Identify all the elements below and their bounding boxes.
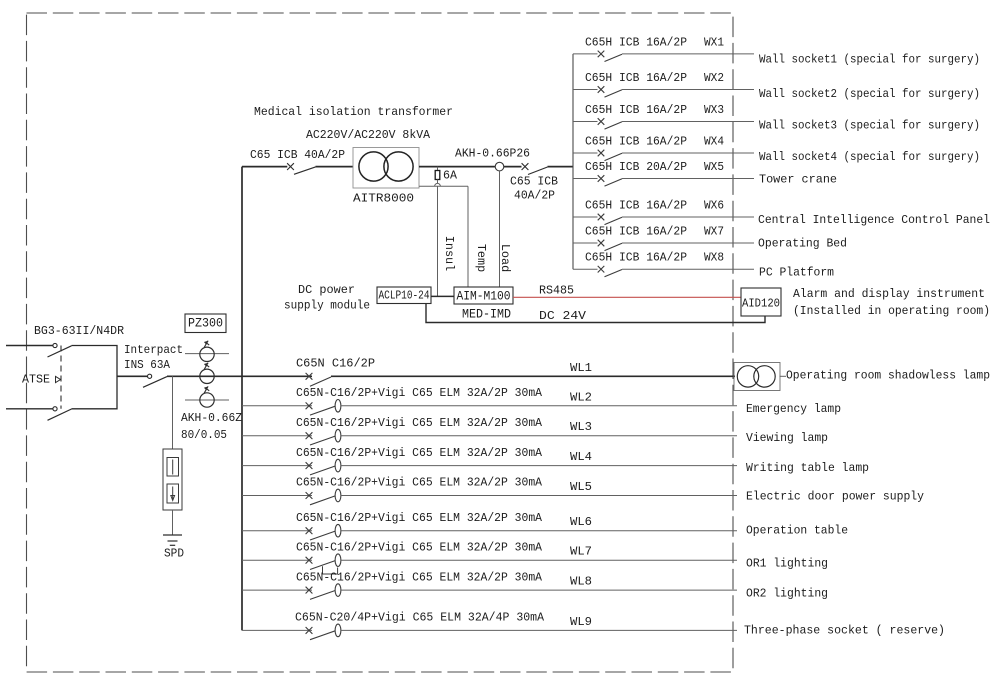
svg-text:C65H ICB 16A/2P: C65H ICB 16A/2P <box>585 71 687 85</box>
svg-text:C65H ICB 16A/2P: C65H ICB 16A/2P <box>585 103 687 117</box>
svg-text:supply module: supply module <box>284 299 370 313</box>
wire breaker to transformer <box>316 166 354 168</box>
label BG3-63II/N4DR <box>34 324 124 338</box>
svg-text:WL9: WL9 <box>570 615 592 629</box>
svg-text:Load: Load <box>498 244 512 272</box>
label Operating Bed <box>758 237 847 251</box>
svg-text:MED-IMD: MED-IMD <box>462 308 511 322</box>
svg-text:WL5: WL5 <box>570 480 592 494</box>
label Wall socket1 (special for surgery) <box>759 53 980 67</box>
svg-text:Interpact: Interpact <box>124 343 183 357</box>
CT3 circle <box>200 393 214 407</box>
svg-text:Central Intelligence Control P: Central Intelligence Control Panel <box>758 213 990 227</box>
dashed enclosure border <box>27 13 734 672</box>
svg-text:WX1: WX1 <box>704 35 724 49</box>
label supply module <box>284 299 370 313</box>
label Installed in operating room <box>793 304 990 318</box>
label Three-phase socket ( reserve) <box>744 623 945 637</box>
svg-text:OR1 lighting: OR1 lighting <box>746 557 828 571</box>
svg-text:C65N-C16/2P+Vigi C65 ELM 32A/2: C65N-C16/2P+Vigi C65 ELM 32A/2P 30mA <box>296 570 543 584</box>
wire transformer to sensor <box>419 166 495 168</box>
svg-text:C65N C16/2P: C65N C16/2P <box>296 357 375 371</box>
SPD inner element 2 <box>167 484 179 503</box>
switch blade input 2 <box>48 409 72 420</box>
wire INS to bus <box>167 375 242 377</box>
CT2 arrow <box>204 363 209 370</box>
label AC220V/AC220V 8kVA <box>306 128 431 142</box>
wire SPD branch vertical <box>172 376 174 449</box>
branch WX1 breaker and wire <box>573 35 754 61</box>
branch WL8 breaker and wire <box>242 570 737 599</box>
svg-text:C65H ICB 16A/2P: C65H ICB 16A/2P <box>585 35 687 49</box>
svg-text:WX7: WX7 <box>704 225 724 239</box>
svg-text:AITR8000: AITR8000 <box>353 192 414 206</box>
svg-text:Insul: Insul <box>442 236 456 271</box>
switch contact circle input 1 <box>53 343 57 347</box>
main bus vertical <box>241 167 243 631</box>
ACLP10-24 box <box>377 287 431 304</box>
label DC power <box>298 283 355 297</box>
svg-text:PC Platform: PC Platform <box>759 266 834 280</box>
label INS 63A <box>124 358 171 372</box>
svg-text:C65H ICB 16A/2P: C65H ICB 16A/2P <box>585 225 687 239</box>
switch contact circle INS <box>148 374 152 378</box>
svg-text:Tower crane: Tower crane <box>759 173 837 187</box>
svg-text:Wall socket3 (special for surg: Wall socket3 (special for surgery) <box>759 119 980 133</box>
svg-text:Operating Bed: Operating Bed <box>758 237 847 251</box>
svg-text:Three-phase socket ( reserve): Three-phase socket ( reserve) <box>744 623 945 637</box>
svg-text:WL2: WL2 <box>570 390 592 404</box>
label RS485 <box>539 283 574 297</box>
svg-text:Operating room shadowless lamp: Operating room shadowless lamp <box>786 368 990 382</box>
label AKH-0.66P26 <box>455 147 530 161</box>
breaker C65 ICB 40A/2P left blade <box>294 167 316 174</box>
fuse 6A body <box>435 171 440 180</box>
svg-text:Wall socket4 (special for surg: Wall socket4 (special for surgery) <box>759 150 980 164</box>
branch WX3 breaker and wire <box>573 103 754 129</box>
svg-text:Operation table: Operation table <box>746 524 848 538</box>
svg-text:WX6: WX6 <box>704 199 724 213</box>
label AID120 <box>742 297 780 311</box>
breaker C65 ICB 40A/2P left X <box>287 163 294 170</box>
PZ300 meter box <box>185 314 226 333</box>
wire Load sense <box>499 171 501 287</box>
svg-text:C65 ICB: C65 ICB <box>510 175 558 189</box>
label Temp vertical <box>474 244 488 272</box>
wire bus to breaker <box>242 166 287 168</box>
label Writing table lamp <box>746 461 869 475</box>
svg-text:WX3: WX3 <box>704 103 724 117</box>
svg-text:WX4: WX4 <box>704 135 724 149</box>
WL7 auxiliary box <box>323 566 338 574</box>
label C65 ICB right line1 <box>510 175 558 189</box>
CT1 circle <box>200 347 214 361</box>
transformer U1 winding 2 <box>384 152 413 181</box>
svg-text:AC220V/AC220V 8kVA: AC220V/AC220V 8kVA <box>306 128 431 142</box>
label Central Intelligence Control Panel <box>758 213 990 227</box>
wire Temp tap <box>419 186 468 287</box>
label AKH-0.66Z <box>181 411 242 425</box>
branch WL9 breaker and wire <box>242 611 737 640</box>
label Tower crane <box>759 173 837 187</box>
svg-text:WX2: WX2 <box>704 71 724 85</box>
svg-text:SPD: SPD <box>164 547 184 561</box>
switch contact circle input 2 <box>53 407 57 411</box>
svg-text:BG3-63II/N4DR: BG3-63II/N4DR <box>34 324 124 338</box>
transformer U1 box <box>353 148 419 189</box>
wire sensor to breaker <box>504 166 522 168</box>
label Wall socket4 (special for surgery) <box>759 150 980 164</box>
svg-text:C65N-C16/2P+Vigi C65 ELM 32A/2: C65N-C16/2P+Vigi C65 ELM 32A/2P 30mA <box>296 511 543 525</box>
label Electric door power supply <box>746 490 924 504</box>
svg-text:(Installed in operating room): (Installed in operating room) <box>793 304 990 318</box>
ATSE actuator triangle <box>56 376 61 382</box>
label PZ300 <box>188 317 223 331</box>
wire lamp to label <box>780 375 787 377</box>
CT2 circle <box>200 369 214 383</box>
wire Insul upper <box>437 180 439 184</box>
label OR1 lighting <box>746 557 828 571</box>
svg-text:40A/2P: 40A/2P <box>514 189 555 203</box>
SPD element arrow <box>171 487 175 501</box>
label C65 ICB 40A/2P <box>250 148 345 162</box>
wire ATSE output <box>117 375 147 377</box>
svg-text:C65N-C16/2P+Vigi C65 ELM 32A/2: C65N-C16/2P+Vigi C65 ELM 32A/2P 30mA <box>296 386 543 400</box>
svg-text:Wall socket1 (special for surg: Wall socket1 (special for surgery) <box>759 53 980 67</box>
CT3 primary line <box>185 399 229 401</box>
svg-text:C65H ICB 16A/2P: C65H ICB 16A/2P <box>585 199 687 213</box>
svg-text:AKH-0.66P26: AKH-0.66P26 <box>455 147 530 161</box>
branch WX2 breaker and wire <box>573 71 754 97</box>
svg-text:WL1: WL1 <box>570 361 592 375</box>
svg-text:C65N-C16/2P+Vigi C65 ELM 32A/2: C65N-C16/2P+Vigi C65 ELM 32A/2P 30mA <box>296 476 543 490</box>
branch WL1 breaker and wire <box>242 357 735 387</box>
svg-text:DC 24V: DC 24V <box>539 309 587 323</box>
svg-text:Writing table lamp: Writing table lamp <box>746 461 869 475</box>
svg-text:Medical isolation transformer: Medical isolation transformer <box>254 105 453 119</box>
label 80/0.05 <box>181 428 227 442</box>
label OR2 lighting <box>746 587 828 601</box>
svg-text:Temp: Temp <box>474 244 488 272</box>
svg-text:6A: 6A <box>443 169 458 183</box>
switch blade INS 63A <box>143 377 167 388</box>
branch WX7 breaker and wire <box>573 225 754 251</box>
label Interpact <box>124 343 183 357</box>
branch WX4 breaker and wire <box>573 135 754 161</box>
label Emergency lamp <box>746 402 841 416</box>
CT3 arrow <box>204 386 209 393</box>
svg-text:ACLP10-24: ACLP10-24 <box>379 289 430 303</box>
svg-text:OR2 lighting: OR2 lighting <box>746 587 828 601</box>
svg-text:C65N-C16/2P+Vigi C65 ELM 32A/2: C65N-C16/2P+Vigi C65 ELM 32A/2P 30mA <box>296 540 543 554</box>
svg-text:C65N-C16/2P+Vigi C65 ELM 32A/2: C65N-C16/2P+Vigi C65 ELM 32A/2P 30mA <box>296 416 543 430</box>
branch WL4 breaker and wire <box>242 446 737 475</box>
svg-text:AIM-M100: AIM-M100 <box>457 288 511 303</box>
label Viewing lamp <box>746 431 828 445</box>
wire RS485 red line <box>513 296 741 298</box>
label Alarm and display instrument <box>793 287 985 301</box>
ground symbol SPD <box>163 535 182 545</box>
label Load vertical <box>498 244 512 272</box>
CT1 primary line <box>185 353 229 355</box>
svg-text:WL3: WL3 <box>570 420 592 434</box>
svg-text:Electric door power supply: Electric door power supply <box>746 490 924 504</box>
svg-text:PZ300: PZ300 <box>188 317 223 331</box>
branch WX6 breaker and wire <box>573 199 754 225</box>
branch WL7 breaker and wire <box>242 540 737 569</box>
wire SPD to ground <box>172 510 174 535</box>
svg-text:AKH-0.66Z: AKH-0.66Z <box>181 411 242 425</box>
branch WL2 breaker and wire <box>242 386 737 415</box>
svg-text:WL4: WL4 <box>570 450 592 464</box>
branch WL6 breaker and wire <box>242 511 737 540</box>
wire Insul hop over Temp <box>435 183 441 186</box>
AIM-M100 box <box>454 287 513 304</box>
svg-text:C65H ICB 20A/2P: C65H ICB 20A/2P <box>585 160 687 174</box>
breaker C65 ICB 40A/2P right blade <box>528 167 548 175</box>
label Insul vertical <box>442 236 456 271</box>
CT1 arrow <box>204 341 209 348</box>
svg-text:Viewing lamp: Viewing lamp <box>746 431 828 445</box>
label SPD <box>164 547 184 561</box>
branch WX8 breaker and wire <box>573 251 754 277</box>
wire DC 24V <box>426 304 765 323</box>
wire incoming line 2 <box>6 408 53 410</box>
svg-text:Emergency lamp: Emergency lamp <box>746 402 841 416</box>
svg-text:DC power: DC power <box>298 283 355 297</box>
ATSE mechanical link dashed line <box>60 346 62 409</box>
svg-text:C65H ICB 16A/2P: C65H ICB 16A/2P <box>585 251 687 265</box>
AID120 box <box>741 288 781 316</box>
label 40A/2P right line2 <box>514 189 555 203</box>
operating room shadowless lamp symbol <box>734 363 780 391</box>
svg-text:C65N-C16/2P+Vigi C65 ELM 32A/2: C65N-C16/2P+Vigi C65 ELM 32A/2P 30mA <box>296 446 543 460</box>
svg-text:WX8: WX8 <box>704 251 724 265</box>
branch WL5 breaker and wire <box>242 476 737 505</box>
wire ACLP to AIM <box>431 295 454 297</box>
branch WX5 breaker and wire <box>573 160 754 186</box>
svg-text:WL8: WL8 <box>570 575 592 589</box>
wire Insul lower <box>437 186 439 296</box>
wire incoming line 1 <box>6 345 53 347</box>
svg-text:RS485: RS485 <box>539 283 574 297</box>
svg-text:C65 ICB 40A/2P: C65 ICB 40A/2P <box>250 148 345 162</box>
svg-text:80/0.05: 80/0.05 <box>181 428 227 442</box>
svg-text:ATSE: ATSE <box>22 373 50 387</box>
label Wall socket3 (special for surgery) <box>759 119 980 133</box>
fuse 6A lead <box>437 167 439 171</box>
label AITR8000 <box>353 192 414 206</box>
label Wall socket2 (special for surgery) <box>759 87 980 101</box>
SPD outer box <box>163 449 182 510</box>
svg-text:WL6: WL6 <box>570 515 592 529</box>
label 6A <box>443 169 458 183</box>
svg-text:Wall socket2 (special for surg: Wall socket2 (special for surgery) <box>759 87 980 101</box>
AKH-0.66P26 sensor circle <box>495 162 504 171</box>
label ATSE <box>22 373 50 387</box>
transformer U1 winding 1 <box>359 152 388 181</box>
label Operation table <box>746 524 848 538</box>
WX bus vertical <box>572 54 574 269</box>
label MED-IMD <box>462 308 511 322</box>
label PC Platform <box>759 266 834 280</box>
svg-text:Alarm and display instrument: Alarm and display instrument <box>793 287 985 301</box>
label DC 24V <box>539 309 587 323</box>
ATSE transfer switch box <box>72 346 118 409</box>
svg-text:WX5: WX5 <box>704 160 724 174</box>
breaker C65 ICB 40A/2P right X <box>522 163 529 170</box>
wire breaker to WX bus <box>548 166 574 168</box>
branch WL3 breaker and wire <box>242 416 737 445</box>
SPD inner element 1 <box>167 458 179 477</box>
svg-text:WL7: WL7 <box>570 545 592 559</box>
label AIM-M100 <box>457 288 511 303</box>
label Operating room shadowless lamp <box>786 368 990 382</box>
svg-text:AID120: AID120 <box>742 297 780 311</box>
label ACLP10-24 <box>379 289 430 303</box>
switch blade input 1 <box>48 346 72 357</box>
svg-text:INS 63A: INS 63A <box>124 358 171 372</box>
svg-text:C65N-C20/4P+Vigi C65 ELM 32A/4: C65N-C20/4P+Vigi C65 ELM 32A/4P 30mA <box>295 611 545 625</box>
svg-text:C65H ICB 16A/2P: C65H ICB 16A/2P <box>585 135 687 149</box>
label Medical isolation transformer <box>254 105 453 119</box>
